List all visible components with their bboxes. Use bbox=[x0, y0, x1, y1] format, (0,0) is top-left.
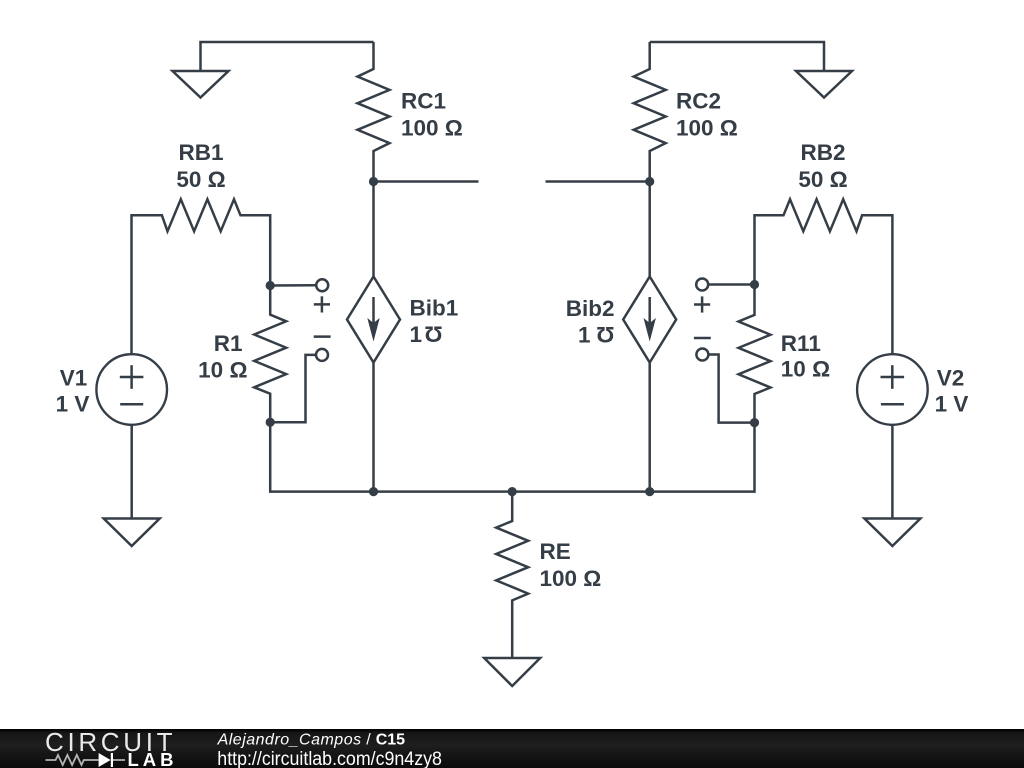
wire stub to node B bbox=[546, 180, 650, 183]
V1 minus bbox=[120, 403, 143, 406]
wire Bib2 top lead bbox=[648, 182, 651, 277]
svg-text:Ω: Ω bbox=[596, 322, 614, 347]
node R11 bottom bbox=[750, 418, 759, 427]
wire from minus terminal right bbox=[709, 355, 755, 423]
Bib1 arrow bbox=[372, 297, 375, 335]
wire Bib1 top lead bbox=[372, 182, 375, 277]
ground bottom-right bbox=[864, 519, 920, 547]
logo resistor squiggle bbox=[46, 755, 126, 765]
svg-text:R11: R11 bbox=[781, 331, 821, 356]
svg-text:V1: V1 bbox=[60, 366, 88, 391]
svg-text:RB2: RB2 bbox=[800, 140, 845, 165]
node bus Bib2 bbox=[645, 487, 654, 496]
wire top-left V+ rail bbox=[201, 42, 374, 71]
current source Bib2 diamond bbox=[623, 277, 676, 363]
node bus RE bbox=[508, 487, 517, 496]
wire top-right V+ rail bbox=[650, 42, 824, 71]
svg-text:50 Ω: 50 Ω bbox=[798, 167, 847, 192]
svg-text:10 Ω: 10 Ω bbox=[781, 357, 830, 382]
svg-text:RC2: RC2 bbox=[676, 89, 721, 114]
V1 plus bbox=[120, 376, 144, 379]
logo diode bbox=[99, 753, 111, 767]
plus marker right bbox=[694, 303, 710, 306]
ground bottom-center bbox=[484, 658, 540, 686]
node B dot bbox=[645, 177, 654, 186]
svg-text:10 Ω: 10 Ω bbox=[198, 358, 247, 383]
terminal circle minus right bbox=[696, 349, 708, 361]
svg-text:Bib1: Bib1 bbox=[410, 296, 459, 321]
svg-text:V2: V2 bbox=[937, 366, 965, 391]
svg-text:http://circuitlab.com/c9n4zy8: http://circuitlab.com/c9n4zy8 bbox=[217, 749, 442, 768]
footer bar bbox=[0, 729, 1024, 768]
svg-text:/: / bbox=[366, 731, 371, 748]
node R1 bottom bbox=[266, 418, 275, 427]
wire V2 bottom lead bbox=[891, 425, 894, 519]
wire V1 bottom lead bbox=[130, 425, 133, 519]
voltage source V1 bbox=[96, 354, 167, 425]
svg-text:RB1: RB1 bbox=[178, 140, 223, 165]
resistor RB2 bbox=[755, 199, 893, 354]
ground bottom-left bbox=[104, 519, 160, 547]
ground top-left bbox=[173, 71, 229, 98]
svg-text:RE: RE bbox=[540, 539, 571, 564]
voltage source V2 bbox=[857, 354, 928, 425]
resistor RC1 bbox=[358, 42, 390, 181]
svg-text:100 Ω: 100 Ω bbox=[401, 116, 463, 141]
node R1 top bbox=[266, 281, 275, 290]
Bib2 arrow bbox=[648, 297, 651, 335]
resistor RE bbox=[496, 492, 528, 658]
svg-text:100 Ω: 100 Ω bbox=[540, 566, 602, 591]
plus marker left bbox=[314, 303, 330, 306]
svg-text:1 V: 1 V bbox=[935, 392, 969, 417]
ground top-right bbox=[796, 71, 852, 98]
svg-text:1: 1 bbox=[410, 322, 423, 347]
svg-text:100 Ω: 100 Ω bbox=[676, 116, 738, 141]
node R11 top bbox=[750, 280, 759, 289]
svg-text:Bib2: Bib2 bbox=[566, 296, 615, 321]
svg-text:R1: R1 bbox=[214, 331, 243, 356]
wire Bib2 bottom lead bbox=[648, 363, 651, 492]
resistor R11 bbox=[739, 285, 771, 423]
svg-text:Alejandro_Campos: Alejandro_Campos bbox=[217, 731, 362, 748]
resistor R1 bbox=[254, 286, 286, 423]
svg-text:LAB: LAB bbox=[128, 749, 174, 768]
wire to terminal plus right bbox=[708, 283, 754, 286]
wire stub from node A bbox=[374, 180, 479, 183]
current source Bib1 diamond bbox=[347, 277, 400, 363]
svg-text:Ω: Ω bbox=[424, 322, 442, 347]
svg-text:C15: C15 bbox=[376, 731, 405, 748]
wire Bib1 bottom lead bbox=[372, 363, 375, 492]
terminal circle plus left bbox=[316, 279, 328, 291]
minus marker left bbox=[314, 335, 331, 338]
resistor RB1 bbox=[132, 199, 271, 354]
node A dot bbox=[369, 177, 378, 186]
wire from minus terminal bbox=[270, 355, 316, 422]
minus marker right bbox=[694, 337, 711, 340]
wire to terminal plus bbox=[270, 284, 316, 287]
svg-text:50 Ω: 50 Ω bbox=[176, 167, 225, 192]
svg-text:1: 1 bbox=[578, 322, 591, 347]
V2 minus bbox=[881, 403, 904, 406]
V2 plus bbox=[881, 376, 905, 379]
svg-text:1 V: 1 V bbox=[56, 392, 90, 417]
svg-text:RC1: RC1 bbox=[401, 89, 446, 114]
terminal circle minus left bbox=[316, 349, 328, 361]
node bus Bib1 bbox=[369, 487, 378, 496]
resistor RC2 bbox=[634, 42, 666, 181]
terminal circle plus right bbox=[696, 279, 708, 291]
wire bottom bus bbox=[270, 422, 754, 491]
